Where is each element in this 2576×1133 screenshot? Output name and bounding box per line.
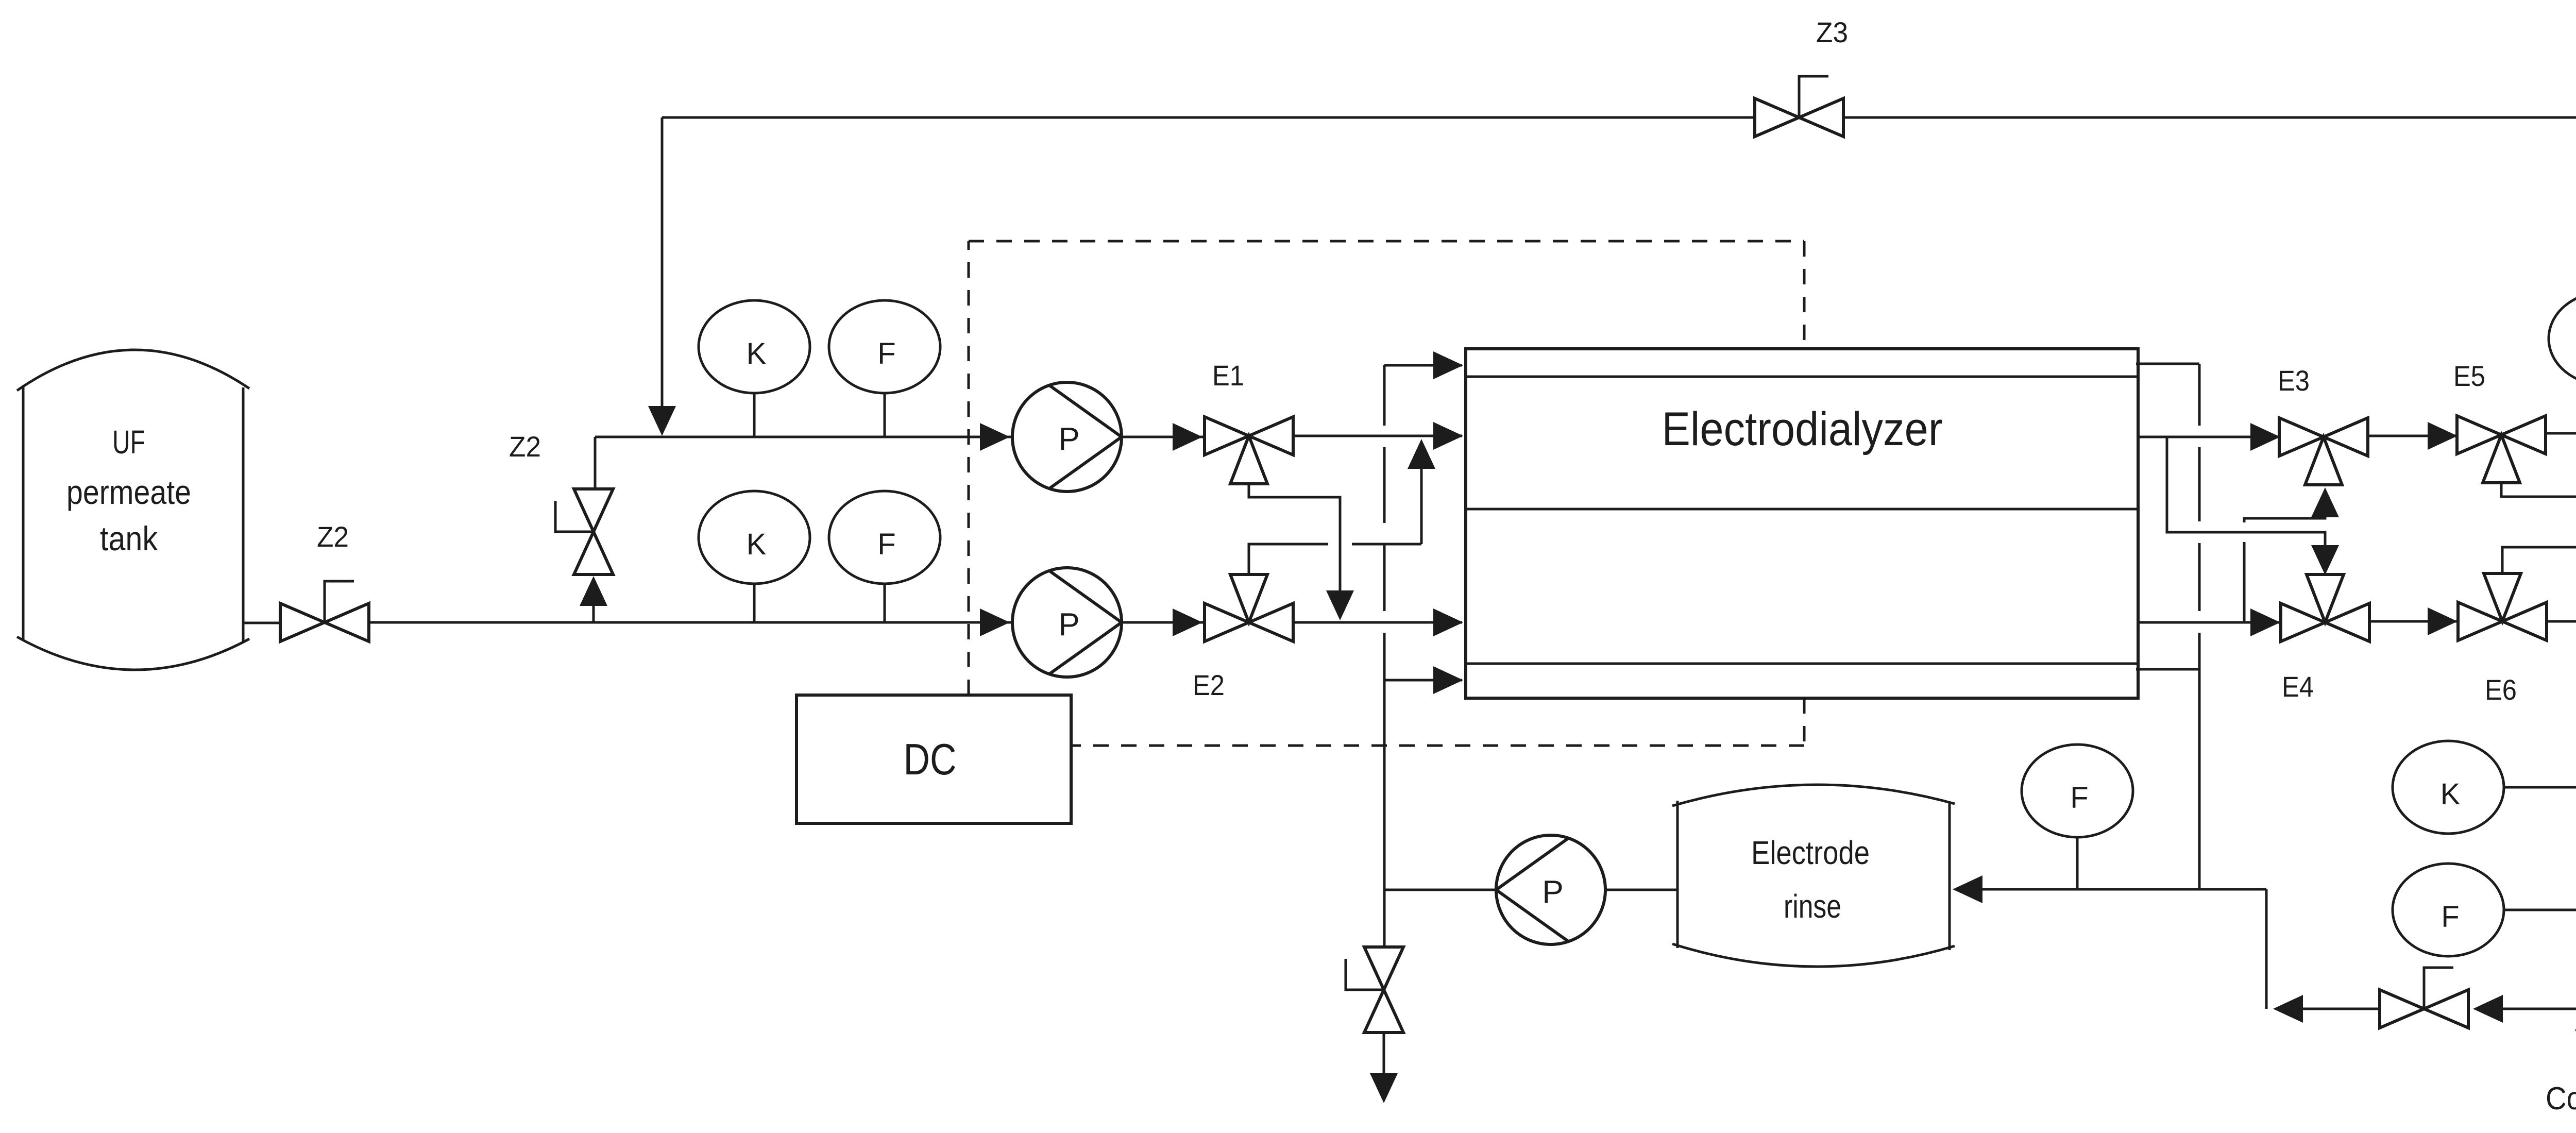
- wire pump P1 to valve E1: [1122, 436, 1204, 438]
- wire E6 to concentrate header: [2547, 621, 2576, 1030]
- flow arrow into electrodialyzer concentrate inlet: [1433, 608, 1463, 636]
- wire valve Z3 to recirculation pump: [1842, 116, 2576, 119]
- svg-text:P: P: [1058, 421, 1079, 457]
- flow arrow into electrodialyzer diluate inlet: [1433, 422, 1463, 450]
- wire E1 to electrodialyzer diluate inlet: [1293, 435, 1462, 437]
- valve E2 (3-way): [1205, 603, 1249, 641]
- valve E4 (3-way): [2281, 603, 2325, 641]
- drain valve (vertical, manual): [1364, 947, 1403, 990]
- valve Z2 (vertical, on branch): [574, 489, 613, 532]
- flow arrow into valve E2: [1173, 608, 1202, 636]
- flow arrow down into valve E4 top port: [2311, 545, 2339, 575]
- wire electrode return downcomer: [2198, 364, 2201, 426]
- flow arrow into rinse loop return: [2273, 995, 2303, 1023]
- valve Z2 (horizontal, manual): [280, 603, 325, 641]
- instrument F (upper feed): [884, 394, 886, 437]
- flow arrow into valve E3: [2250, 423, 2280, 451]
- flow arrow up from lower line into valve Z2: [592, 602, 595, 622]
- instrument K (lower feed): [753, 584, 756, 622]
- svg-text:Z3: Z3: [1816, 16, 1848, 48]
- flow arrow into valve E6: [2428, 607, 2458, 635]
- UF permeate tank: [22, 385, 25, 641]
- svg-text:E6: E6: [2485, 673, 2517, 706]
- svg-text:Electrode: Electrode: [1751, 834, 1870, 871]
- pump P1 (upper feed pump): [1012, 382, 1122, 492]
- wire E3 to valve E5: [2368, 435, 2456, 437]
- wire upper feed line to pump P1: [595, 436, 1011, 438]
- svg-text:E1: E1: [1212, 359, 1244, 392]
- svg-text:E4: E4: [2282, 670, 2314, 703]
- svg-text:K: K: [2441, 777, 2461, 811]
- wire E2 top port crossover to diluate feed line: [1249, 544, 1328, 574]
- wire pump P2 to valve E2: [1122, 621, 1204, 624]
- wire bleed valve to rinse loop: [2302, 1008, 2380, 1010]
- dashed DC lead out of electrodialyzer bottom: [1803, 698, 1806, 746]
- valve E1 (3-way): [1205, 417, 1249, 455]
- flow arrow into electrode top channel: [1433, 351, 1463, 379]
- dashed DC lead bottom (to cathode): [1071, 745, 1804, 747]
- wire electrode bottom return: [2136, 668, 2199, 671]
- svg-text:F: F: [2070, 781, 2088, 815]
- valve E5 (3-way): [2457, 416, 2501, 454]
- wire rinse tank to rinse pump: [1606, 889, 1677, 891]
- wire diluate crossover down to valve E4 top port: [2167, 437, 2325, 547]
- bleed valve (manual): [2380, 990, 2424, 1028]
- svg-text:Concentrate: Concentrate: [2546, 1081, 2576, 1117]
- wire concentrate outlet to valve E4: [2138, 621, 2279, 624]
- svg-text:K: K: [747, 337, 767, 370]
- svg-text:DC: DC: [904, 735, 957, 784]
- wire rinse return line (right): [1981, 888, 2266, 891]
- wire bleed riser to rinse line: [2265, 889, 2268, 1009]
- flow arrow into valve E1: [1173, 423, 1202, 451]
- instrument K (concentrate): [2504, 786, 2576, 789]
- svg-text:rinse: rinse: [1784, 888, 1841, 925]
- svg-text:tank: tank: [100, 519, 158, 557]
- wire E5 spec-off branch: [2501, 483, 2576, 497]
- wire branch up to vertical valve Z2: [594, 437, 597, 489]
- dashed DC lead left (to anode): [968, 241, 970, 695]
- electrodialyzer stack: [1466, 349, 2138, 698]
- wire electrode rinse bottom feed: [1384, 679, 1462, 682]
- pump P2 (lower feed pump): [1012, 568, 1122, 677]
- dashed DC lead into electrodialyzer top: [1803, 241, 1806, 349]
- wire UF tank outlet to valve Z2: [243, 622, 280, 624]
- flow arrow into electrode bottom channel: [1433, 666, 1463, 694]
- flow arrow up onto diluate feed line: [1408, 439, 1435, 469]
- valve E6 (3-way): [2458, 602, 2502, 640]
- svg-text:permeate: permeate: [66, 473, 191, 511]
- wire Z3 return line drop: [661, 117, 664, 407]
- svg-text:P: P: [1058, 607, 1079, 642]
- instrument K (upper feed): [753, 394, 756, 437]
- instrument F (electrode rinse): [2076, 837, 2079, 889]
- flow arrow concentrate outfall: [2575, 1029, 2576, 1059]
- svg-text:Electrodialyzer: Electrodialyzer: [1662, 403, 1943, 455]
- flow arrow into pump P1: [980, 423, 1010, 451]
- flow arrow into pump P2: [980, 608, 1010, 636]
- wire drain outfall: [1383, 1033, 1385, 1074]
- svg-text:F: F: [877, 337, 895, 370]
- wire upper recirculation line to valve Z3: [662, 116, 1756, 119]
- wire electrode top return: [2136, 363, 2199, 365]
- rinse pump P: [1496, 835, 1605, 944]
- flow arrow into valve E5: [2428, 422, 2458, 450]
- wire EDR tank suction line to valve E5: [2545, 432, 2576, 435]
- wire E6 spec-off branch: [2502, 547, 2576, 573]
- svg-text:F: F: [877, 528, 895, 561]
- flow arrow into electrode rinse tank: [1953, 875, 1982, 903]
- wire E1 bottom port crossover down to concentrate feed line: [1249, 484, 1340, 591]
- wire electrode rinse top feed: [1384, 364, 1462, 367]
- instrument F (concentrate): [2504, 909, 2576, 911]
- wire diluate outlet to valve E3: [2138, 436, 2279, 438]
- flow arrow down onto concentrate feed line: [1326, 590, 1354, 620]
- svg-text:P: P: [1542, 874, 1563, 910]
- svg-text:E2: E2: [1193, 669, 1225, 701]
- wire electrode rinse supply riser: [1383, 365, 1386, 426]
- flow arrow drain outfall: [1370, 1073, 1398, 1103]
- wire concentrate crossover up to valve E3 bottom port: [2243, 542, 2246, 622]
- valve Z3 (manual): [1755, 98, 1799, 137]
- electrode rinse tank: [1676, 801, 1679, 948]
- flow arrow into bleed valve: [2473, 995, 2503, 1023]
- svg-text:E3: E3: [2278, 364, 2310, 397]
- flow arrow down onto upper feed line: [648, 406, 676, 436]
- wire lower feed line Z2 to pump P2: [369, 621, 1011, 624]
- svg-text:F: F: [2441, 900, 2459, 934]
- svg-text:Z2: Z2: [509, 430, 541, 463]
- svg-text:K: K: [747, 528, 767, 561]
- wire E4 to valve E6: [2369, 620, 2456, 623]
- flow arrow up into valve E3 bottom port: [2311, 487, 2339, 517]
- svg-text:UF: UF: [112, 424, 145, 461]
- instrument F (lower feed): [884, 584, 886, 622]
- flow arrow into valve E4: [2250, 608, 2280, 636]
- valve E3 (3-way): [2279, 418, 2324, 456]
- wire E2 to electrodialyzer concentrate inlet: [1293, 621, 1462, 624]
- wire concentrate bleed line: [2491, 1008, 2576, 1010]
- svg-text:E5: E5: [2453, 360, 2485, 392]
- DC power supply box: [796, 695, 1071, 823]
- svg-text:Z2: Z2: [317, 520, 349, 553]
- wire rinse pump to riser junction: [1384, 889, 1496, 891]
- dashed DC lead top: [969, 240, 1804, 243]
